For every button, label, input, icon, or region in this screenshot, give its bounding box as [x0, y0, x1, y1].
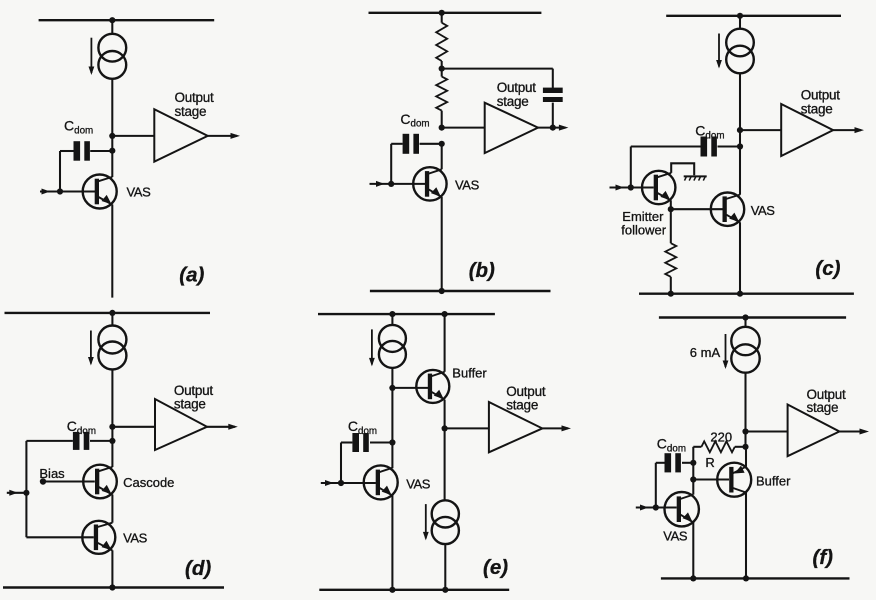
wire current source down (f)	[744, 373, 746, 447]
svg-text:(c): (c)	[815, 257, 840, 280]
wire buffer base lead (f)	[693, 478, 729, 480]
op-amp Output stage (b)	[485, 103, 538, 153]
node buffer base tap (f)	[690, 476, 696, 482]
junction input/feedback (d)	[23, 490, 29, 496]
node Cdom tap (b)	[439, 141, 445, 147]
svg-text:Bias: Bias	[39, 466, 65, 481]
node Cdom tap (c)	[737, 143, 743, 149]
wire base lead Q1 (c)	[631, 186, 654, 188]
wire Cdom right plate to node (d)	[90, 440, 112, 442]
wire rail to current source (c)	[739, 16, 741, 29]
node output tap (b)	[439, 125, 445, 131]
resistor R1 (b)	[436, 23, 447, 61]
wire VAS collector to node (b)	[441, 144, 443, 170]
wire feedback down to base (e)	[340, 443, 342, 484]
svg-text:(f): (f)	[813, 546, 834, 569]
current source I2 (e)	[423, 500, 459, 544]
svg-text:220: 220	[710, 430, 732, 445]
transistor Cascode Q1 (d)	[83, 465, 117, 499]
node R1/R2 (b)	[439, 66, 445, 72]
junction rail/R1 (b)	[439, 10, 445, 16]
wire buffer emitter up (f)	[745, 447, 747, 467]
wire VAS emitter down (a)	[111, 205, 113, 298]
svg-text:follower: follower	[621, 223, 666, 238]
wire rail to current source (f)	[744, 318, 746, 328]
wire Cdom left plate (f)	[656, 462, 665, 464]
node resistor/buffer emitter (f)	[742, 444, 748, 450]
supply rail (f)	[659, 316, 846, 318]
junction input/base (c)	[628, 184, 634, 190]
svg-text:(e): (e)	[483, 556, 508, 579]
capacitor Cdom (a)	[74, 141, 90, 161]
ground rail (b)	[370, 290, 551, 292]
node Cdom tap (e)	[389, 439, 395, 445]
capacitor C2 (b)	[543, 88, 563, 102]
transistor VAS Q1 (b)	[413, 167, 446, 200]
current source I1 (e)	[369, 325, 406, 368]
op-amp Output stage (a)	[154, 109, 207, 162]
input arrow (d)	[7, 490, 27, 496]
supply rail (b)	[369, 12, 542, 14]
svg-text:Buffer: Buffer	[756, 474, 791, 489]
wire R2 top (b)	[441, 69, 443, 77]
junction resistor/ground rail (c)	[668, 291, 674, 297]
wire feedback down to base (a)	[59, 151, 61, 192]
node output tap (d)	[109, 424, 115, 430]
wire to output stage (e)	[445, 427, 489, 429]
wire resistor left end (f)	[693, 446, 701, 448]
svg-text:VAS: VAS	[123, 531, 148, 546]
resistor R2 (b)	[436, 77, 447, 111]
wire rail to current source (d)	[111, 313, 113, 326]
junction Q1 emitter node (c)	[668, 206, 674, 212]
wire buffer collector down (f)	[745, 493, 747, 579]
wire VAS emitter down (e)	[391, 495, 393, 589]
wire resistor right end (f)	[735, 446, 746, 448]
wire current source down (e)	[391, 368, 393, 468]
input arrow (f)	[636, 505, 656, 511]
supply rail (c)	[666, 15, 841, 17]
wire buffer emitter to output node (e)	[444, 400, 446, 429]
svg-text:Output: Output	[497, 80, 537, 95]
supply rail (d)	[5, 312, 211, 314]
svg-text:stage: stage	[175, 104, 207, 119]
wire node down to resistor (c)	[670, 209, 672, 243]
node buffer base tap (e)	[389, 385, 395, 391]
wire cap C2 to output line (b)	[552, 103, 554, 128]
wire to output stage (a)	[112, 135, 154, 137]
svg-text:Cdom: Cdom	[400, 111, 429, 130]
ground rail (c)	[639, 293, 854, 295]
junction current source 2/ground rail (e)	[442, 587, 448, 593]
svg-text:VAS: VAS	[455, 178, 480, 193]
wire current source to VAS collector (c)	[739, 73, 741, 194]
transistor VAS Q2 (d)	[82, 521, 115, 554]
wire VAS base lead (f)	[656, 506, 677, 508]
wire base lead (a)	[60, 190, 95, 192]
output arrow (d)	[207, 424, 238, 430]
junction VAS emitter/ground rail (e)	[389, 587, 395, 593]
wire to buffer base (e)	[392, 387, 428, 389]
wire Cdom left plate (a)	[60, 150, 74, 152]
ground symbol (c)	[684, 176, 707, 180]
wire to output stage (b)	[442, 127, 485, 129]
junction rail/current-source (a)	[109, 17, 115, 23]
wire Cdom right plate to node (a)	[90, 150, 112, 152]
wire node to cap branch (b)	[442, 68, 553, 70]
resistor R 220 (f)	[701, 441, 734, 452]
transistor Buffer Q2 (f)	[717, 463, 751, 497]
input arrow (a)	[40, 189, 60, 195]
wire feedback down to input (c)	[630, 147, 632, 188]
svg-text:VAS: VAS	[406, 476, 431, 491]
junction cap/output line (b)	[550, 125, 556, 131]
capacitor Cdom (e)	[352, 433, 368, 452]
svg-text:stage: stage	[506, 397, 538, 412]
junction VAS emitter/ground rail (f)	[690, 575, 696, 581]
ground rail (f)	[661, 577, 850, 579]
junction rail/current-source (c)	[737, 13, 743, 19]
wire output node to current source 2 (e)	[444, 428, 446, 500]
output arrow (b)	[538, 125, 568, 131]
junction rail/current-source (f)	[742, 314, 748, 320]
wire to output stage (f)	[746, 430, 788, 432]
bias terminal dot (d)	[40, 478, 46, 484]
wire Q1 emitter to node (c)	[670, 201, 672, 210]
junction input/base (e)	[338, 480, 344, 486]
svg-text:stage: stage	[497, 94, 529, 109]
junction VAS emitter/ground rail (c)	[737, 291, 743, 297]
capacitor Cdom (b)	[403, 134, 419, 154]
node output tap (f)	[742, 428, 748, 434]
wire VAS emitter down (c)	[739, 222, 741, 294]
current source I1 (a)	[89, 34, 127, 79]
current source 6mA (f)	[723, 327, 760, 373]
transistor VAS Q2 (e)	[364, 465, 398, 499]
svg-text:Cdom: Cdom	[695, 123, 724, 142]
wire Cdom right plate to node (b)	[420, 143, 442, 145]
node Cdom tap (a)	[109, 148, 115, 154]
wire feedback down to VAS base (d)	[25, 441, 27, 537]
input arrow (c)	[610, 185, 631, 191]
wire current source to cascode collector (d)	[111, 370, 113, 468]
capacitor Cdom (c)	[701, 137, 717, 157]
node Cdom tap (f)	[690, 460, 696, 466]
wire down to cap C2 (b)	[552, 69, 554, 89]
wire cascode emitter to VAS collector (d)	[111, 495, 113, 523]
junction buffer collector/ground rail (f)	[743, 575, 749, 581]
wire current source to VAS collector (a)	[111, 79, 113, 177]
wire R2 bottom (b)	[441, 111, 443, 128]
output arrow (e)	[542, 425, 571, 431]
wire Cdom left plate (e)	[341, 441, 352, 443]
transistor Emitter follower Q1 (c)	[642, 171, 675, 204]
wire R1 to node (b)	[441, 61, 443, 69]
wire feedback down to base (b)	[390, 144, 392, 184]
node output tap (e)	[442, 425, 448, 431]
op-amp Output stage (e)	[489, 402, 542, 452]
junction rail/current-source (d)	[109, 310, 115, 316]
wire VAS emitter down (b)	[441, 197, 443, 291]
output arrow (c)	[833, 127, 864, 133]
svg-text:Cdom: Cdom	[657, 436, 686, 455]
wire resistor to ground rail (c)	[670, 277, 672, 294]
transistor Buffer Q1 (e)	[416, 370, 449, 403]
current source I1 (d)	[88, 326, 126, 370]
wire bias to cascode base (d)	[43, 480, 95, 482]
transistor VAS Q1 (f)	[665, 492, 699, 526]
svg-text:VAS: VAS	[663, 528, 688, 543]
wire rail to current source (a)	[111, 20, 113, 33]
svg-text:stage: stage	[174, 396, 206, 411]
resistor R1 (c)	[665, 243, 676, 277]
transistor VAS Q1 (a)	[83, 175, 117, 209]
wire rail to R1 (b)	[441, 13, 443, 23]
junction input/base (a)	[57, 188, 63, 194]
svg-text:stage: stage	[807, 400, 839, 415]
output arrow (f)	[839, 429, 869, 435]
junction rail/current-source (e)	[389, 311, 395, 317]
junction input/base (b)	[388, 181, 394, 187]
input arrow (e)	[321, 480, 341, 486]
wire VAS emitter down (f)	[692, 522, 694, 578]
junction emitter/ground rail (b)	[439, 288, 445, 294]
junction rail/buffer collector (e)	[442, 311, 448, 317]
current source I1 (c)	[716, 29, 754, 74]
wire current source 2 to ground rail (e)	[444, 544, 446, 590]
svg-text:Cdom: Cdom	[348, 418, 377, 437]
op-amp Output stage (c)	[781, 104, 833, 156]
wire VAS emitter down (d)	[111, 550, 113, 587]
svg-text:Cascode: Cascode	[123, 475, 174, 490]
op-amp Output stage (f)	[788, 405, 840, 457]
junction emitter/ground rail (d)	[109, 584, 115, 590]
wire Cdom right plate to node (e)	[370, 441, 392, 443]
wire left branch down (f)	[692, 447, 694, 495]
wire Cdom left plate (d)	[26, 440, 73, 442]
svg-text:6 mA: 6 mA	[690, 345, 721, 360]
svg-text:Cdom: Cdom	[64, 118, 93, 137]
wire Q1 collector to ground symbol (c)	[671, 163, 694, 175]
svg-text:Output: Output	[175, 90, 215, 105]
svg-text:(d): (d)	[185, 557, 211, 580]
transistor VAS Q2 (c)	[711, 193, 744, 226]
wire Cdom left plate (c)	[631, 145, 701, 147]
svg-text:stage: stage	[801, 101, 833, 116]
svg-text:Cdom: Cdom	[67, 418, 96, 437]
wire to output stage (c)	[740, 129, 781, 131]
svg-text:(a): (a)	[179, 264, 204, 287]
capacitor Cdom (d)	[73, 432, 89, 450]
node Cdom tap (d)	[109, 438, 115, 444]
op-amp Output stage (d)	[155, 399, 207, 450]
ground rail (e)	[319, 589, 509, 591]
capacitor Cdom (f)	[665, 453, 681, 472]
ground rail (d)	[3, 586, 224, 588]
wire base lead (b)	[391, 183, 425, 185]
input arrow (b)	[370, 181, 392, 187]
wire Cdom right plate to node (f)	[682, 462, 693, 464]
wire rail to current source (e)	[391, 314, 393, 325]
wire rail to buffer collector (e)	[444, 314, 446, 372]
svg-text:VAS: VAS	[751, 203, 776, 218]
supply rail (a)	[39, 19, 215, 21]
wire Cdom left plate (b)	[391, 143, 402, 145]
node output tap (a)	[109, 133, 115, 139]
svg-text:(b): (b)	[469, 259, 495, 282]
wire to output stage (d)	[112, 426, 155, 428]
output arrow (a)	[208, 133, 240, 139]
svg-text:Buffer: Buffer	[452, 366, 487, 381]
wire VAS base lead (d)	[26, 536, 93, 538]
svg-text:VAS: VAS	[127, 185, 152, 200]
wire node to Q2 base (c)	[671, 208, 723, 210]
svg-text:R: R	[705, 455, 714, 470]
wire Cdom right plate to node (c)	[718, 145, 741, 147]
junction input/base (f)	[653, 504, 659, 510]
wire feedback down to base (f)	[655, 463, 657, 508]
wire base lead (e)	[341, 482, 376, 484]
supply rail (e)	[318, 313, 495, 315]
node output tap (c)	[737, 127, 743, 133]
